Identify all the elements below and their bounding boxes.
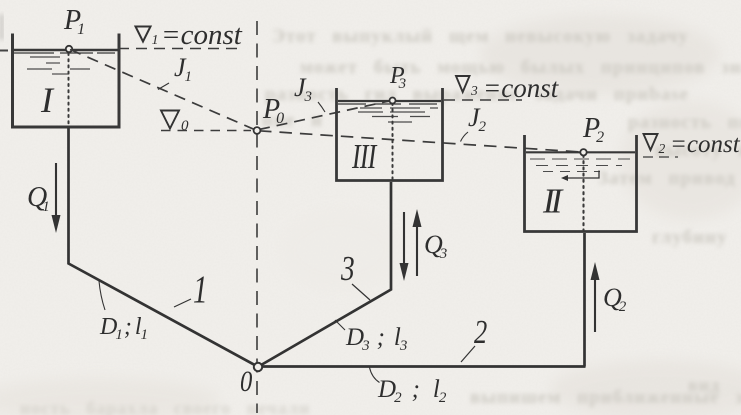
- tank I walls: [13, 34, 120, 128]
- svg-text:глубину: глубину: [652, 227, 727, 248]
- svg-text:1: 1: [193, 268, 208, 311]
- svg-text:3: 3: [340, 249, 355, 288]
- tank III water shading: [358, 108, 438, 122]
- tank I water shading: [27, 57, 90, 74]
- tank II water surface: [526, 151, 635, 153]
- tank II axis: [582, 155, 584, 230]
- svg-text:P3: P3: [389, 63, 406, 92]
- tank I axis: [68, 53, 70, 126]
- tank II walls: [525, 135, 637, 232]
- svg-text:D3;l3: D3;l3: [345, 324, 407, 354]
- level symbol nabla3: [456, 76, 478, 98]
- node P1: [66, 46, 72, 52]
- svg-text:Затем привод: Затем привод: [598, 168, 736, 189]
- level symbol nabla1: [136, 27, 159, 49]
- arrow Q2: [591, 262, 600, 332]
- level dash left of tank I: [0, 50, 8, 52]
- level line 0: [161, 130, 251, 132]
- level line 3: [444, 99, 522, 101]
- label pipe 1: [174, 268, 208, 311]
- tank III walls: [337, 88, 443, 181]
- piezometric line J1: [70, 50, 256, 131]
- pipe 2: [259, 233, 586, 367]
- label J1: [158, 53, 192, 90]
- label J2: [461, 103, 487, 142]
- tank II water shading: [530, 159, 630, 172]
- node P2: [580, 149, 586, 155]
- label pipe 2: [461, 313, 487, 362]
- level symbol nabla0: [161, 111, 189, 135]
- node P3: [390, 98, 396, 104]
- node O: [254, 363, 262, 371]
- piezometric line J2: [259, 131, 581, 152]
- svg-text:Q1: Q1: [27, 182, 50, 215]
- tank III axis: [392, 103, 394, 179]
- svg-text:2: 2: [474, 313, 487, 351]
- node P0: [254, 127, 261, 134]
- label D1 l1: [99, 281, 148, 343]
- level symbol nabla2: [644, 134, 666, 156]
- label J3: [294, 73, 325, 112]
- svg-text:разность пье: разность пье: [628, 112, 741, 133]
- svg-text:III: III: [351, 137, 378, 176]
- pipe 3: [259, 182, 392, 367]
- svg-text:I: I: [40, 80, 55, 120]
- svg-text:3: 3: [470, 83, 478, 98]
- pipe 1: [69, 129, 258, 367]
- svg-text:1: 1: [152, 33, 159, 48]
- label D3 l3: [335, 320, 407, 354]
- svg-text:Этот выпуклый щем невысокую за: Этот выпуклый щем невысокую задачу: [272, 26, 689, 47]
- svg-text:=const: =const: [483, 73, 560, 103]
- svg-text:=const: =const: [670, 131, 741, 158]
- svg-text:0: 0: [240, 365, 253, 398]
- tank II depth marker: [561, 171, 599, 182]
- label D2 l2: [370, 368, 447, 407]
- svg-text:вид: вид: [688, 375, 720, 395]
- page-edge artifact: [0, 14, 4, 40]
- level line 1: [118, 48, 242, 50]
- arrow Q3 up: [413, 209, 422, 276]
- svg-text:2: 2: [659, 141, 666, 156]
- tank I water surface: [13, 50, 118, 53]
- piezometric line J3: [259, 101, 390, 130]
- arrow Q1: [52, 163, 61, 233]
- svg-text:D2;l2: D2;l2: [377, 376, 447, 406]
- center axis dashed: [256, 21, 258, 413]
- label pipe 3: [340, 249, 370, 300]
- svg-text:=const: =const: [161, 19, 243, 51]
- arrow Q3 down: [400, 212, 409, 281]
- tank III water surface: [338, 101, 441, 104]
- label O: [240, 365, 253, 398]
- svg-text:ность барахла своего печали: ность барахла своего печали: [20, 398, 310, 415]
- svg-text:D1;l1: D1;l1: [99, 314, 148, 343]
- label III: [351, 137, 378, 176]
- svg-text:0: 0: [181, 118, 189, 134]
